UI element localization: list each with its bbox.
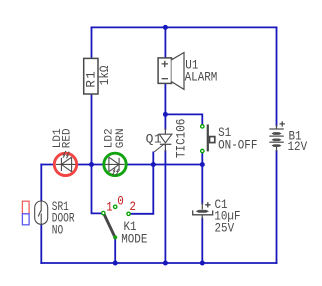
svg-text:TIC106: TIC106 — [173, 119, 188, 158]
svg-text:LD2: LD2 — [104, 128, 116, 148]
contact top — [201, 125, 204, 128]
wire speaker to SCR anode — [164, 84, 166, 129]
lever — [104, 213, 115, 236]
node LED row / S1 / C1 — [200, 162, 205, 167]
reed capsule — [35, 201, 48, 224]
svg-text:25V: 25V — [215, 221, 235, 236]
wire C1 to bottom rail — [201, 219, 203, 264]
svg-text:ALARM: ALARM — [185, 70, 218, 85]
svg-text:Q1: Q1 — [146, 131, 163, 146]
contact 2 — [127, 212, 130, 215]
svg-text:RED: RED — [62, 128, 74, 148]
svg-text:NO: NO — [52, 225, 64, 239]
node speaker / S1 / SCR anode — [163, 112, 168, 117]
svg-text:0: 0 — [117, 195, 123, 209]
wire S1 bottom contact to row node — [201, 153, 203, 164]
speaker U1 — [158, 53, 217, 90]
wire SCR cathode to bottom rail — [164, 151, 166, 263]
wire SR1 column bottom — [40, 224, 42, 263]
node LED row / R1 column — [89, 162, 94, 167]
wire top rail — [92, 26, 277, 28]
thyristor Q1 — [146, 119, 189, 165]
wire R1 column down to K1 contact 1 — [92, 94, 102, 213]
wire LED row — [41, 164, 202, 166]
wire speaker column top — [164, 27, 166, 58]
wire row node to C1 — [201, 165, 203, 204]
svg-text:1: 1 — [106, 201, 112, 215]
battery B1 — [269, 121, 285, 151]
wire battery column top — [276, 27, 278, 125]
wire SR1 column top — [40, 165, 42, 202]
magnet blue half — [22, 214, 29, 225]
wire anode node to S1 top contact — [165, 114, 202, 124]
wire K1 common to bottom rail — [114, 239, 116, 263]
wire R1 column top — [91, 27, 93, 58]
node bottom rail / K1 — [113, 261, 118, 266]
reed switch SR1 — [22, 201, 74, 238]
capacitor C1 — [193, 197, 241, 236]
node bottom rail / C1 — [200, 261, 205, 266]
contact bottom — [201, 149, 204, 152]
common pivot — [113, 235, 117, 239]
wire battery column bottom — [276, 151, 278, 263]
svg-text:ON-OFF: ON-OFF — [218, 138, 257, 153]
svg-text:1kΩ: 1kΩ — [97, 66, 112, 86]
node bottom rail / SCR — [163, 261, 168, 266]
wire K1 contact 2 to gate node — [130, 165, 153, 214]
switch K1 — [102, 195, 148, 247]
switch S1 — [201, 125, 258, 153]
wire bottom rail — [41, 262, 276, 264]
magnet red half — [22, 201, 29, 214]
svg-text:GRN: GRN — [115, 128, 127, 148]
svg-text:2: 2 — [130, 200, 136, 214]
svg-text:MODE: MODE — [121, 232, 147, 247]
node LED row / gate — [151, 162, 156, 167]
lever — [207, 125, 209, 152]
resistor R1 — [84, 58, 112, 94]
contact 1 — [102, 211, 105, 214]
LED LD1 (red) — [52, 128, 77, 176]
LED LD2 (green) — [104, 128, 128, 176]
svg-text:12V: 12V — [288, 139, 308, 154]
contact 0 — [114, 205, 117, 208]
node top rail / speaker column — [163, 25, 168, 30]
